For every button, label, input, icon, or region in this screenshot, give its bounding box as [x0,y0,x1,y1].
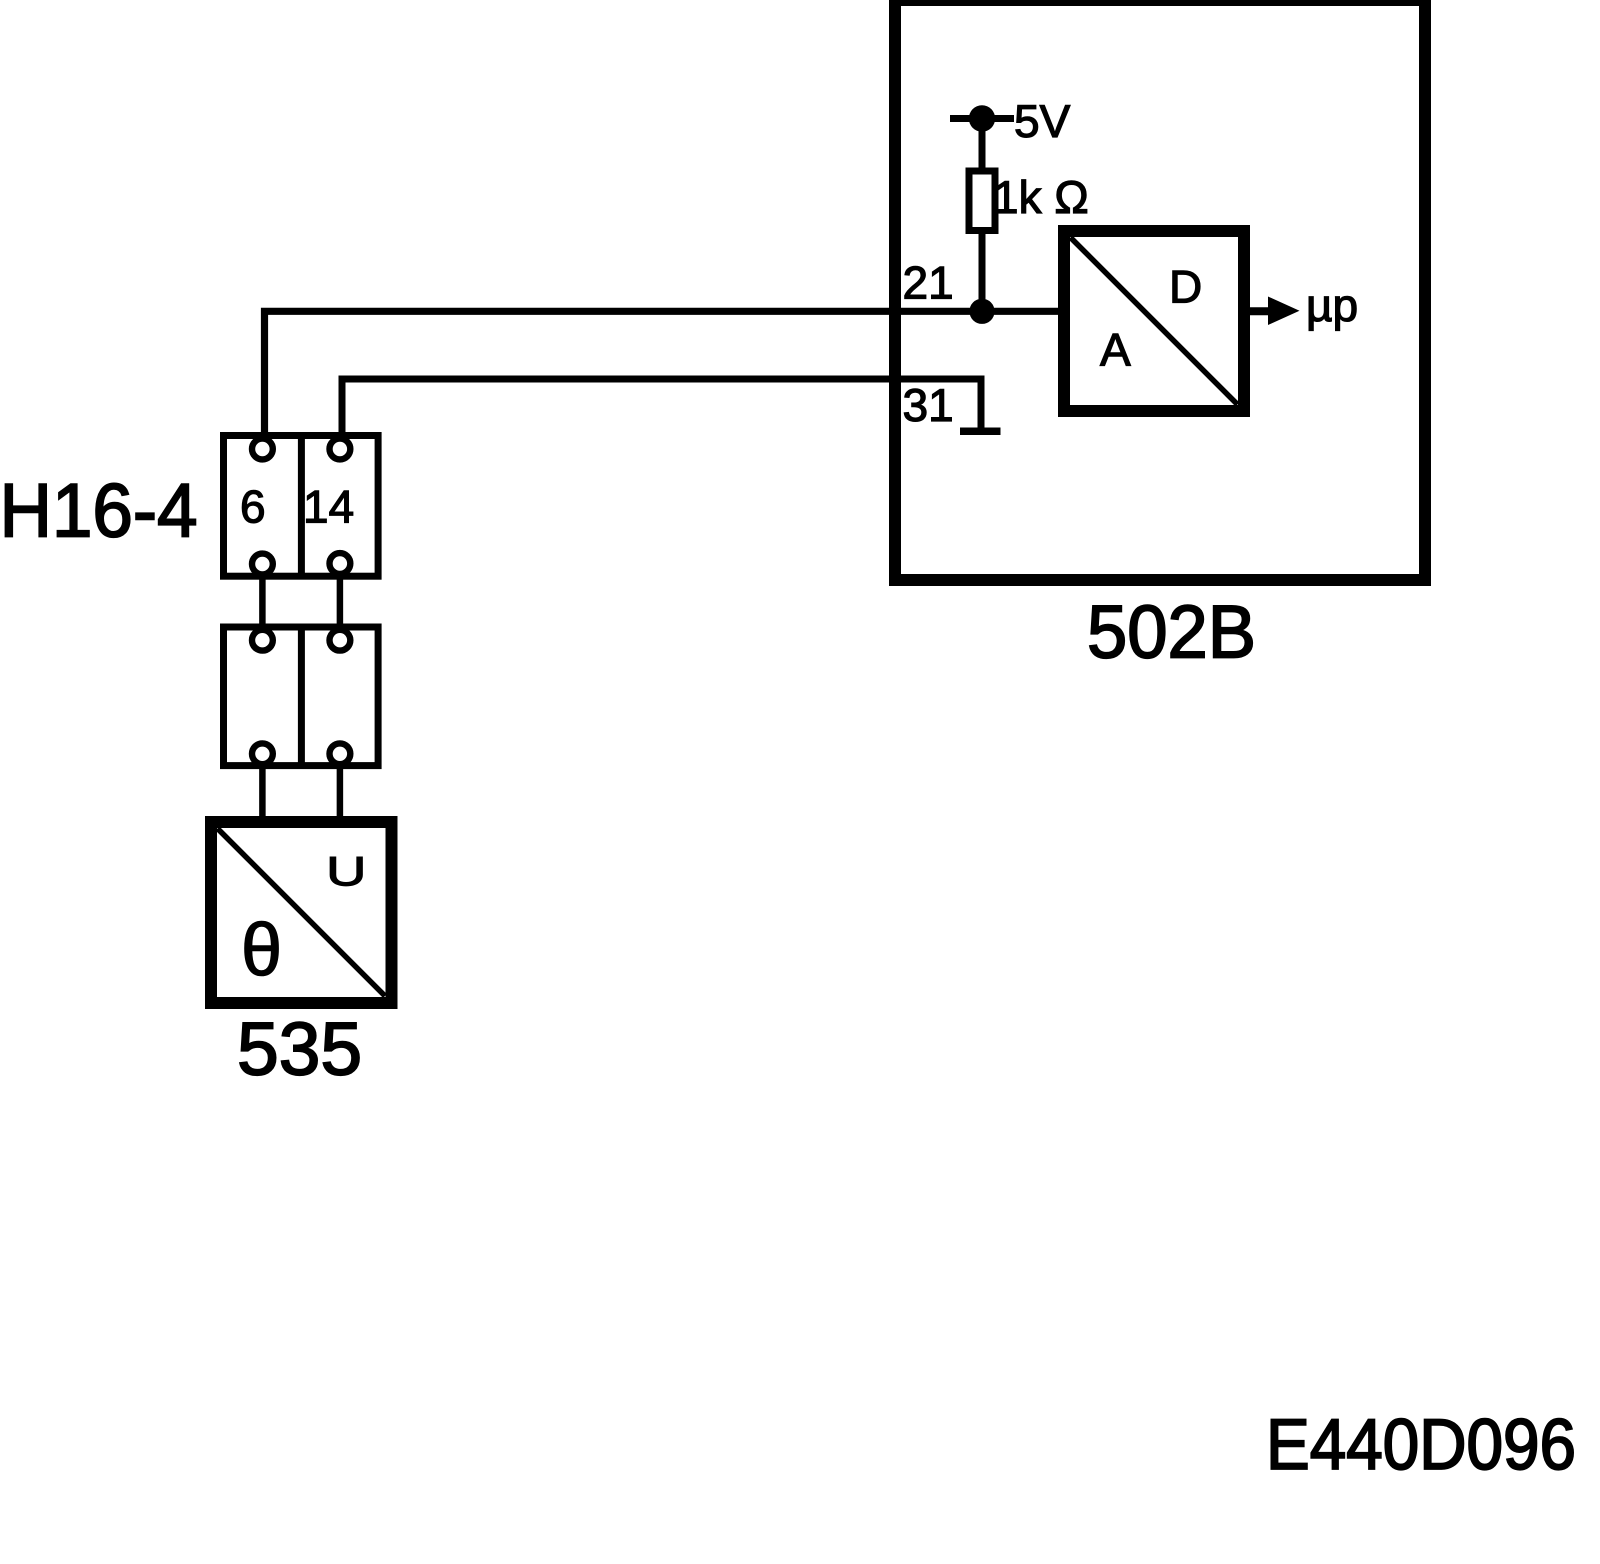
A/D converter U1 [1064,231,1244,411]
pin 31 label [904,389,951,422]
5V node dot [969,105,995,131]
label 535 [240,1022,359,1075]
pin 6 label [242,490,263,523]
label A (analog side) [1100,334,1131,366]
label H16-4 [6,483,196,537]
5V supply stub [950,115,1014,122]
wire pin 14 to intermediate connector [337,576,344,630]
drawing number E440D096 [1271,1419,1573,1470]
label microprocessor [1309,296,1356,330]
connector H16-4 [224,436,379,577]
intermediate connector pin sockets [252,630,350,764]
wire intermediate connector to sensor left [259,765,266,822]
connector H16-4 pin sockets [252,439,350,575]
wire pin 31 (connector pin 14 up and right to ground) [342,379,981,437]
resistor R1 1kOhm [969,171,995,231]
intermediate connector [224,627,379,766]
wire 5V to resistor [979,119,986,172]
temperature sensor 535 [211,822,392,1003]
wire resistor to node 21 [979,231,986,312]
wire intermediate connector to sensor right [337,765,344,822]
label theta (temperature) [245,921,278,975]
pin 14 label [307,491,353,523]
label U (voltage out) [330,857,362,886]
label 1k Ohm [997,180,1087,213]
ground [960,428,1001,436]
label 502B [1090,605,1252,658]
junction dot node 21 [969,299,994,324]
label 5V [1016,105,1070,137]
wire pin 6 to intermediate connector [259,576,266,630]
label D (digital side) [1173,271,1200,303]
ECU box 502B [895,0,1425,580]
output arrow to microprocessor [1250,297,1300,326]
wire pin 21 (connector pin 6 up and right to A/D converter) [265,311,1059,437]
pin 21 label [905,266,952,298]
